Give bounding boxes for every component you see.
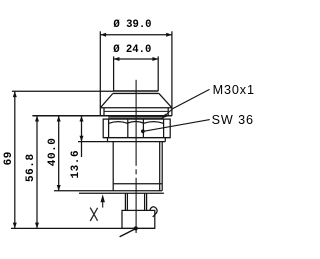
- svg-text:Ø 24.0: Ø 24.0: [113, 44, 151, 56]
- svg-text:Ø 39.0: Ø 39.0: [113, 19, 151, 31]
- svg-text:M30x1: M30x1: [213, 83, 255, 97]
- svg-text:56.8: 56.8: [25, 153, 37, 182]
- svg-text:13.6: 13.6: [70, 150, 82, 179]
- svg-text:40.0: 40.0: [47, 138, 59, 167]
- svg-text:SW 36: SW 36: [212, 113, 254, 127]
- svg-text:69: 69: [3, 151, 15, 165]
